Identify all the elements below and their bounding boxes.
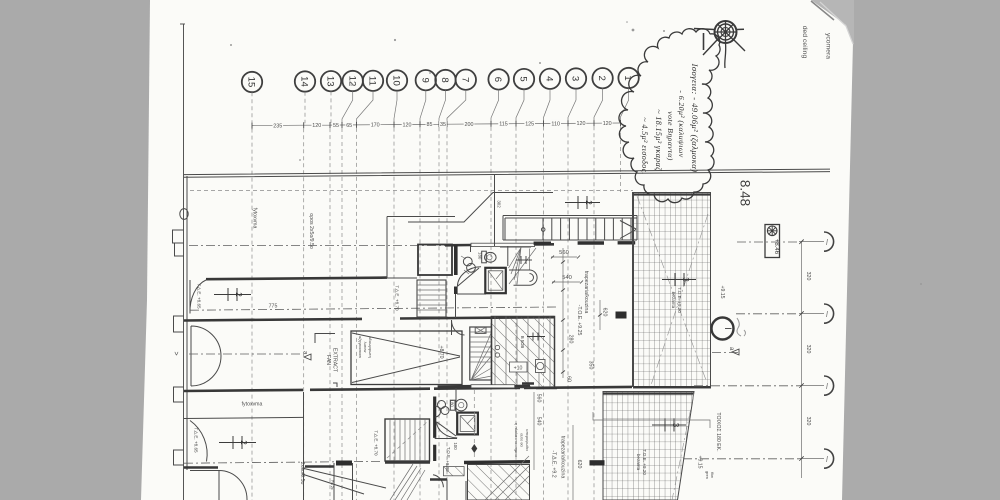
pergola grid bottom dark line xyxy=(634,386,711,388)
svg-text:620: 620 xyxy=(576,460,582,469)
right horizontal dashdot y313 xyxy=(736,313,824,315)
svg-text:200: 200 xyxy=(465,122,474,128)
upper bath stair small xyxy=(417,280,446,317)
spiral stair battery symbol xyxy=(516,256,532,264)
plate note lower xyxy=(514,423,530,457)
door arc bottom xyxy=(219,471,247,500)
svg-text:4: 4 xyxy=(544,76,555,82)
dimension value 35 xyxy=(439,121,447,129)
corridor angled wall xyxy=(408,193,553,223)
svg-text:T.Δ.E. +8.65: T.Δ.E. +8.65 xyxy=(197,283,202,309)
section marker a mid xyxy=(302,351,312,360)
kitchen dim tick slashes xyxy=(561,261,602,374)
svg-text:fytoxvma: fytoxvma xyxy=(242,402,263,408)
right horizontal dashdot y241 xyxy=(737,241,824,244)
lower strip line xyxy=(184,417,303,418)
svg-text:-T.O.E. +9.25: -T.O.E. +9.25 xyxy=(576,305,582,336)
grid bubble 3 xyxy=(566,68,586,88)
svg-text:B 5OB: B 5OB xyxy=(520,336,525,349)
door arc lower left wall xyxy=(190,421,207,462)
leader line axis 6 xyxy=(491,90,499,122)
axis half bubble 2 xyxy=(824,304,834,323)
svg-text:55: 55 xyxy=(333,123,339,129)
leader line axis 5 xyxy=(516,89,524,121)
door arc left of stair xyxy=(452,320,465,335)
interior stair straight xyxy=(470,327,492,380)
svg-text:Pa 2x: Pa 2x xyxy=(330,480,334,490)
leader line axis 7 xyxy=(447,90,466,122)
svg-text:120: 120 xyxy=(577,121,586,127)
dimension ticks xyxy=(252,120,621,129)
svg-text:I: I xyxy=(723,327,733,330)
svg-text:560: 560 xyxy=(559,250,569,256)
dimension value 200 xyxy=(464,121,475,129)
svg-text:35: 35 xyxy=(440,122,446,128)
lower vertical wall x303 xyxy=(303,392,305,500)
wall B y278 xyxy=(206,278,387,280)
bath door arc upper xyxy=(457,267,481,287)
level box +8.46 xyxy=(765,225,780,258)
top perimeter wall double line xyxy=(184,169,830,177)
grid bubble 5 xyxy=(514,69,534,89)
svg-text:235: 235 xyxy=(273,123,282,129)
svg-text:T.Δ.E. +8.70: T.Δ.E. +8.70 xyxy=(395,285,400,311)
svg-text:+10: +10 xyxy=(514,366,523,372)
svg-text:320: 320 xyxy=(805,417,811,426)
grid bubble 10 xyxy=(387,70,407,90)
bottom room top wall xyxy=(464,460,530,464)
paper edge vertical line xyxy=(183,24,185,500)
svg-text:9: 9 xyxy=(419,78,430,83)
leader line axis 14 xyxy=(304,92,306,124)
svg-text:8.48: 8.48 xyxy=(738,180,753,206)
svg-text:+8.46: +8.46 xyxy=(773,239,779,255)
svg-text:65: 65 xyxy=(346,123,352,129)
kitchen right wall x632 xyxy=(632,192,634,387)
double door arcs in left wall xyxy=(191,326,221,386)
leader line axis 8 xyxy=(439,90,446,122)
dimension value 120 xyxy=(312,122,323,130)
grid bubble 2 xyxy=(592,68,612,88)
wall E thin continuation xyxy=(190,471,219,500)
lower dim line vertical xyxy=(534,392,573,500)
handwriting line 2 xyxy=(666,90,686,160)
bottom dark block left xyxy=(336,461,352,466)
lower dims 560 540 xyxy=(536,394,542,426)
upper bath divider walls xyxy=(457,246,508,294)
fixture circles lower xyxy=(438,401,450,415)
dimension value 120 xyxy=(402,121,413,128)
lower pergola grid xyxy=(603,392,694,500)
svg-text:αξηγκασκοw: αξηγκασκοw xyxy=(358,336,363,358)
svg-text:15: 15 xyxy=(246,77,257,88)
svg-text:2: 2 xyxy=(596,76,607,81)
dimension 775 line xyxy=(190,307,557,310)
svg-text:ycomera: ycomera xyxy=(825,33,832,59)
right horizontal dashdot y385 xyxy=(694,385,824,387)
north compass wheel xyxy=(694,21,745,68)
svg-text:14: 14 xyxy=(299,76,310,87)
dash-dot lower corridor xyxy=(184,461,380,463)
svg-text:λuτοw: λuτοw xyxy=(363,342,368,353)
spiral stair treads xyxy=(509,248,537,285)
shaft knob circles xyxy=(495,345,499,357)
right dim ticks xyxy=(799,240,803,461)
svg-text:+9.15: +9.15 xyxy=(719,285,725,298)
corner fold crease shadow xyxy=(811,1,834,20)
dimension line row xyxy=(252,123,621,126)
corner fold light streak xyxy=(820,2,853,44)
grid bubble 14 xyxy=(295,71,315,91)
svg-text:3: 3 xyxy=(570,76,581,81)
grid bubble 8 xyxy=(435,70,455,90)
wash basin semicircle lower xyxy=(435,406,441,417)
extract fan leader elbow xyxy=(315,334,337,388)
door arc at wall B left xyxy=(190,280,206,314)
leader line axis 10 xyxy=(394,91,397,123)
shaft inner white label box xyxy=(510,362,528,372)
axis dashed verticals xyxy=(252,126,621,500)
dimension value 115 xyxy=(498,120,509,128)
svg-text:110: 110 xyxy=(551,121,560,127)
leader line axis 4 xyxy=(544,89,551,122)
svg-text:11: 11 xyxy=(367,76,378,86)
dimension value 55 xyxy=(332,121,340,128)
svg-text:7: 7 xyxy=(459,77,470,82)
svg-text:120: 120 xyxy=(603,121,612,127)
svg-text:Ισoγεια: - 49.06μ² (ζαλμoκα): Ισoγεια: - 49.06μ² (ζαλμoκα) xyxy=(690,63,700,173)
svg-text:350: 350 xyxy=(588,361,594,370)
axis half bubble 1 xyxy=(824,232,834,251)
svg-text:αδuωρφωτη: αδuωρφωτη xyxy=(368,336,373,358)
lower bath inner walls xyxy=(435,388,457,439)
bottom wall segs under stair xyxy=(385,463,447,480)
grid bubble 15 xyxy=(242,72,262,92)
svg-text:120: 120 xyxy=(312,123,321,129)
svg-text:2: 2 xyxy=(234,292,243,297)
small hatch strip lower left xyxy=(443,467,464,476)
gren fliw note xyxy=(705,471,715,479)
svg-text:>: > xyxy=(172,351,179,355)
corridor dash-dot axis xyxy=(189,353,300,355)
shaft battery symbol xyxy=(527,333,545,341)
svg-text:2: 2 xyxy=(239,440,248,445)
leader line axis 12 xyxy=(342,91,353,123)
svg-text:180: 180 xyxy=(478,252,483,260)
svg-text:uπερuψωθει: uπερuψωθει xyxy=(525,429,530,451)
left wall double line xyxy=(186,176,188,470)
wc toilet upper xyxy=(482,251,496,263)
elevator shaft box lower xyxy=(457,413,478,435)
svg-text:fliw: fliw xyxy=(710,472,715,478)
svg-text:540: 540 xyxy=(536,417,542,426)
grid bubble 6 xyxy=(488,69,508,89)
svg-text:10: 10 xyxy=(391,75,402,86)
bezanta label upper xyxy=(671,287,682,313)
left scanner gray band xyxy=(0,0,150,500)
wall E lower segments xyxy=(184,467,334,468)
section symbol 3 upper grid xyxy=(662,273,696,286)
bottom small walls xyxy=(447,480,466,500)
leader line axis 1 xyxy=(621,88,629,121)
svg-text:EXTRACT: EXTRACT xyxy=(332,348,338,373)
wall C y320 xyxy=(184,317,554,320)
pencil squiggle near axis circle xyxy=(737,318,746,336)
svg-text:85: 85 xyxy=(427,122,433,128)
svg-text:280: 280 xyxy=(568,335,574,344)
grid bubble 12 xyxy=(343,71,363,91)
svg-text:~ 18.15μ² γκαραζ: ~ 18.15μ² γκαραζ xyxy=(654,109,663,171)
svg-text:2x5o/9.5o: 2x5o/9.5o xyxy=(299,462,305,485)
svg-text:trapezaria/kouzina: trapezaria/kouzina xyxy=(583,271,589,314)
lower bath top wall segs and beam xyxy=(438,385,530,388)
section symbol 2 lower xyxy=(219,436,256,449)
svg-text:FAN: FAN xyxy=(325,355,331,365)
section symbol 2 upper xyxy=(214,288,251,301)
svg-text:ded ceiling: ded ceiling xyxy=(801,26,808,59)
svg-text:100: 100 xyxy=(453,442,458,450)
shaft symbol box xyxy=(536,360,546,373)
dimension value 85 xyxy=(426,121,434,129)
svg-text:T.O.E. +9.20: T.O.E. +9.20 xyxy=(642,449,647,475)
beam white band lower xyxy=(471,385,515,388)
svg-text:540: 540 xyxy=(562,275,572,281)
bottom stair treads xyxy=(385,419,430,461)
spiral stair hook xyxy=(509,270,537,285)
svg-text:+8.70: +8.70 xyxy=(438,345,444,358)
leader line axis 2 xyxy=(594,88,603,121)
svg-text:775: 775 xyxy=(269,304,278,310)
svg-text:560: 560 xyxy=(536,394,542,403)
bottom room hatch xyxy=(468,465,530,500)
top stair box xyxy=(503,216,637,241)
svg-text:8: 8 xyxy=(439,77,450,82)
pergola diag dashdot xyxy=(637,196,708,388)
bottom stair arrow xyxy=(387,422,427,458)
svg-text:2: 2 xyxy=(584,200,593,205)
svg-text:T.O.E.: T.O.E. xyxy=(446,447,451,459)
left edge bracket 4 xyxy=(174,450,185,465)
leader line axis 3 xyxy=(568,89,576,122)
svg-text:T.Δ.E. +8.70: T.Δ.E. +8.70 xyxy=(374,430,379,456)
grid bubble 4 xyxy=(540,69,560,89)
svg-text:320: 320 xyxy=(805,345,811,354)
horizontal dashed line upper strip xyxy=(190,190,633,192)
pergola upper grid xyxy=(634,193,711,389)
extract fan label xyxy=(325,348,338,373)
top stair treads xyxy=(543,218,631,240)
door arc bottom left lower xyxy=(433,475,443,488)
kitchen dim line vertical xyxy=(563,248,600,378)
grid bubble 13 xyxy=(321,71,341,91)
lower stair fan lines xyxy=(390,464,425,500)
dimension value 170 xyxy=(370,121,381,129)
svg-text:gren: gren xyxy=(705,471,710,479)
svg-text:oρos 2x5o/9.5o: oρos 2x5o/9.5o xyxy=(308,213,314,249)
svg-text:320: 320 xyxy=(805,272,811,281)
axis half bubble 4 xyxy=(824,449,834,468)
wc toilet lower xyxy=(450,399,467,411)
svg-text:125: 125 xyxy=(525,122,534,128)
marked box with X xyxy=(475,327,486,333)
svg-text:120: 120 xyxy=(403,122,412,128)
bottom room cross lines xyxy=(485,456,529,500)
upper room top wall segments and beam xyxy=(445,244,554,245)
grid bubble 9 xyxy=(416,70,436,90)
central wall thin continuation xyxy=(455,294,457,318)
svg-text:αuτo θα: αuτo θα xyxy=(520,433,525,447)
wash basin fixtures upper xyxy=(461,256,475,274)
dimension value 120 xyxy=(576,120,587,128)
dash-dot corridor right xyxy=(712,352,740,354)
svg-text:bezanta: bezanta xyxy=(671,292,676,309)
svg-text:3: 3 xyxy=(671,423,680,428)
left edge bracket 2 xyxy=(174,316,185,332)
svg-text:60: 60 xyxy=(566,376,572,382)
right axis vertical line xyxy=(801,242,803,479)
beam white band upper xyxy=(471,243,535,246)
upper right room walls xyxy=(387,217,455,279)
svg-text:115: 115 xyxy=(499,122,508,128)
svg-text:- 6.20μ² (καλuψιωv: - 6.20μ² (καλuψιωv xyxy=(677,90,686,157)
svg-text:TOIXOΣ 180 EK.: TOIXOΣ 180 EK. xyxy=(715,412,721,451)
svg-text:3: 3 xyxy=(681,277,690,282)
svg-text:~ 4.5μ² εισoδoς.: ~ 4.5μ² εισoδoς. xyxy=(640,117,649,174)
bottom dark block near grid xyxy=(590,460,605,465)
svg-text:13: 13 xyxy=(325,76,336,87)
leader line axis 15 xyxy=(251,92,253,123)
bath door arc lower xyxy=(437,422,458,438)
leader line axis 11 xyxy=(357,91,374,123)
dust specks xyxy=(230,21,922,285)
dimension start hook xyxy=(251,126,253,130)
svg-text:fytoxvma: fytoxvma xyxy=(252,208,258,229)
fan wedge room outline xyxy=(351,331,462,385)
axis half bubble 3 xyxy=(824,376,834,395)
dimension value 110 xyxy=(550,120,561,128)
svg-text:5: 5 xyxy=(518,76,529,81)
dark dashed wall under stair xyxy=(534,241,636,245)
right scanner gray band xyxy=(842,0,1000,500)
garage ramp diagonals xyxy=(302,468,386,494)
grid bubble 7 xyxy=(456,70,476,90)
stair tread knob xyxy=(541,228,545,232)
section symbol 2 right xyxy=(565,196,600,209)
section symbol 3 lower grid xyxy=(652,419,686,432)
labels 100 TOE 8.90 lower xyxy=(445,442,458,472)
dim extension line 302 xyxy=(494,174,496,246)
bezanta label lower xyxy=(636,449,647,475)
dimension value 125 xyxy=(524,120,535,128)
svg-text:170: 170 xyxy=(371,123,380,129)
right horizontal dashdot y458 xyxy=(683,458,824,460)
grid bubble 11 xyxy=(363,71,383,91)
svg-text:vote Βηραvτα): vote Βηραvτα) xyxy=(666,111,675,161)
stair direction chevron xyxy=(620,221,636,239)
axis circle I xyxy=(712,318,734,340)
svg-text:bezanta: bezanta xyxy=(636,454,641,471)
paper edge top tick xyxy=(180,23,185,25)
left edge column ellipse xyxy=(180,209,188,220)
pergola grid dark block xyxy=(616,312,627,319)
upper right inner room dark border xyxy=(418,245,452,276)
svg-text:trapezaria/kouzina: trapezaria/kouzina xyxy=(560,436,566,479)
svg-text:6: 6 xyxy=(492,77,503,82)
corridor dim diamond xyxy=(471,390,477,459)
left edge bracket 3 xyxy=(174,387,185,402)
kitchen top wall y247 right xyxy=(500,246,531,248)
fan wedge inner labels xyxy=(358,336,373,358)
lower vertical wall x334 xyxy=(334,463,353,500)
svg-text:+9.15: +9.15 xyxy=(697,455,703,468)
revision cloud xyxy=(619,29,720,203)
lower bath left wall xyxy=(433,397,436,462)
dash-dot line y245 xyxy=(189,245,448,247)
svg-text:η πλakα στo σημειo: η πλakα στo σημειo xyxy=(514,423,519,457)
leader line axis 13 xyxy=(330,91,332,123)
toixos 180 ek note with leader xyxy=(593,412,721,452)
elevator shaft box upper xyxy=(485,268,506,293)
dimension value 120 xyxy=(602,120,613,128)
wall D y390 xyxy=(184,387,632,391)
svg-text:T.Δ.E. +8.65: T.Δ.E. +8.65 xyxy=(194,427,199,453)
svg-text:T.O.E. +9.20: T.O.E. +9.20 xyxy=(677,287,682,313)
dimension value 65 xyxy=(345,121,353,129)
shaft cross-hatch room xyxy=(492,317,555,388)
leader line axis 9 xyxy=(420,90,426,122)
svg-text:620: 620 xyxy=(602,308,608,317)
left edge bracket 1 xyxy=(173,230,185,256)
central thick wall x455 xyxy=(454,245,458,294)
fan wedge triangle xyxy=(352,333,460,383)
section marker a right xyxy=(728,347,739,355)
grid bubble 1 xyxy=(618,68,638,88)
svg-text:302: 302 xyxy=(497,200,502,208)
top-right paper corner fold xyxy=(811,0,854,46)
lower unit top walls xyxy=(522,384,557,389)
svg-text:-T.Δ.E. +9.2: -T.Δ.E. +9.2 xyxy=(551,450,557,477)
bubble inner ticks xyxy=(827,239,828,462)
dimension value 235 xyxy=(273,122,284,130)
lower grid slant dashline xyxy=(672,393,694,500)
